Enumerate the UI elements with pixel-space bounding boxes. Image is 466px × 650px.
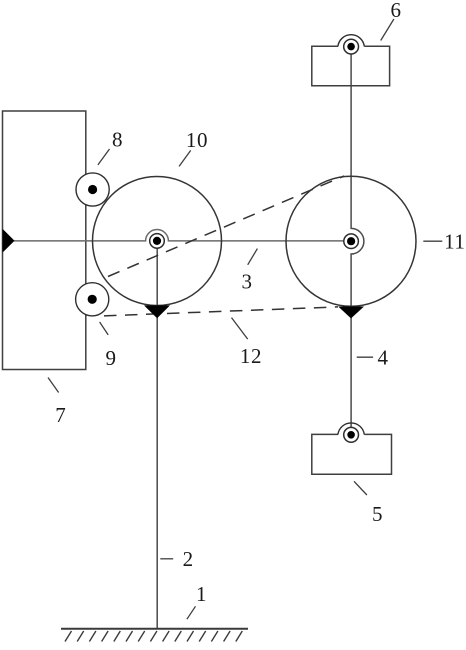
svg-text:3: 3 — [241, 270, 252, 294]
svg-text:1: 1 — [196, 582, 207, 606]
svg-text:7: 7 — [55, 403, 66, 427]
svg-text:8: 8 — [112, 127, 123, 151]
svg-text:11: 11 — [444, 229, 465, 253]
svg-text:10: 10 — [186, 128, 208, 152]
svg-text:2: 2 — [183, 547, 194, 571]
svg-text:6: 6 — [390, 0, 401, 22]
svg-text:12: 12 — [240, 344, 262, 368]
svg-text:5: 5 — [372, 502, 383, 526]
svg-text:4: 4 — [377, 346, 388, 370]
svg-text:9: 9 — [105, 346, 116, 370]
